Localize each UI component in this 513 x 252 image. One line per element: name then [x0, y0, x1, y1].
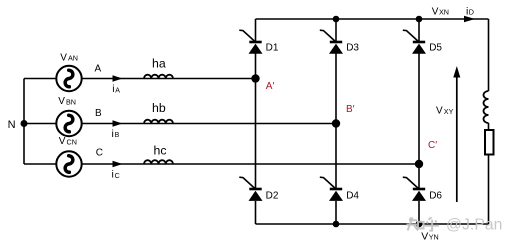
wire column D5 upper [418, 19, 420, 41]
svg-text:D1: D1 [266, 43, 279, 54]
label ID [466, 5, 474, 17]
label VAN [60, 52, 78, 63]
label B' [346, 104, 355, 115]
svg-text:hc: hc [154, 144, 167, 158]
inductor ha [144, 75, 173, 79]
node top D3 junction [333, 16, 340, 23]
svg-text:XN: XN [439, 8, 449, 17]
label hb [152, 101, 166, 115]
svg-text:N: N [8, 119, 16, 131]
label iB [112, 128, 120, 140]
AC source VCN [56, 151, 81, 176]
node bottom D4 junction [333, 221, 340, 228]
arrow current iA [113, 75, 123, 81]
label ha [152, 57, 166, 71]
watermark zhihu glyphs [407, 217, 440, 230]
svg-text:D5: D5 [429, 43, 442, 54]
svg-text:V: V [59, 136, 66, 147]
wire column D3 lower [335, 201, 337, 224]
svg-text:V: V [60, 52, 67, 63]
wire row C left [24, 163, 56, 165]
wire left neutral bus [23, 79, 25, 165]
label B [95, 108, 102, 119]
label D3 [346, 43, 359, 54]
label C' [428, 140, 437, 151]
label A [95, 64, 102, 75]
svg-text:D: D [469, 8, 474, 17]
wire column D1 upper [255, 19, 257, 41]
svg-text:YN: YN [429, 233, 439, 242]
label iC [112, 169, 120, 181]
watermark @J.Pan [446, 217, 502, 234]
svg-text:A: A [115, 88, 120, 95]
svg-text:BN: BN [66, 98, 76, 107]
label VXN [432, 6, 449, 17]
svg-text:D3: D3 [346, 43, 359, 54]
wire row A left [24, 78, 56, 80]
inductor hc [144, 160, 173, 164]
node A' [251, 74, 259, 82]
wire column D3 upper [335, 19, 337, 41]
label N [8, 119, 16, 131]
svg-text:B: B [95, 108, 102, 119]
thyristor D3 [320, 30, 343, 54]
svg-text:V: V [436, 106, 443, 117]
label VXY [436, 106, 454, 117]
wire top bus [256, 18, 489, 20]
label iA [112, 83, 120, 95]
svg-text:CN: CN [67, 138, 77, 147]
svg-text:XY: XY [444, 107, 454, 116]
node bottom D6 junction [416, 221, 423, 228]
svg-text:V: V [432, 6, 439, 17]
resistor load [485, 130, 494, 155]
wire column D1 lower [255, 201, 257, 224]
svg-text:D2: D2 [266, 190, 279, 201]
label VYN [421, 230, 438, 242]
thyristor D6 [403, 177, 426, 201]
svg-text:A′: A′ [266, 81, 275, 92]
svg-text:hb: hb [152, 101, 166, 115]
label hc [154, 144, 167, 158]
label C [96, 148, 103, 159]
arrow voltage VXY [453, 66, 460, 202]
wire column D1 middle [255, 53, 257, 188]
label D4 [346, 190, 359, 201]
wire column D5 middle [418, 53, 420, 188]
label VBN [58, 96, 76, 107]
wire bottom bus [256, 223, 489, 225]
inductor load [484, 91, 489, 123]
wire row B middle [82, 123, 336, 125]
svg-text:V: V [421, 230, 428, 242]
arrow current iD [464, 16, 475, 22]
inductor hb [144, 120, 173, 124]
arrow current iB [113, 120, 123, 126]
svg-text:i: i [112, 169, 114, 181]
wire row A middle [82, 78, 256, 80]
label D1 [266, 43, 279, 54]
label D6 [429, 190, 442, 201]
thyristor D4 [320, 177, 343, 201]
thyristor D5 [403, 30, 426, 54]
wire column D5 lower [418, 201, 420, 224]
svg-text:AN: AN [68, 54, 78, 63]
wire row C middle [82, 163, 419, 165]
thyristor D2 [239, 177, 262, 201]
node C' [415, 160, 423, 168]
node N [21, 120, 28, 127]
svg-text:@J.Pan: @J.Pan [446, 217, 502, 234]
AC source VBN [56, 111, 81, 136]
svg-text:i: i [112, 128, 114, 140]
svg-text:D6: D6 [429, 190, 442, 201]
wire load right lower [488, 155, 490, 225]
wire column D3 middle [335, 53, 337, 188]
svg-text:B′: B′ [346, 104, 355, 115]
svg-text:C: C [115, 173, 120, 180]
svg-text:C′: C′ [428, 140, 437, 151]
node top D5 junction [416, 16, 423, 23]
svg-text:V: V [58, 96, 65, 107]
thyristor D1 [239, 30, 262, 54]
arrow current iC [113, 161, 123, 167]
svg-text:C: C [96, 148, 103, 159]
label A' [266, 81, 275, 92]
svg-text:ha: ha [152, 57, 166, 71]
svg-text:i: i [112, 83, 114, 95]
label D2 [266, 190, 279, 201]
AC source VAN [56, 66, 81, 91]
wire load right upper [488, 19, 490, 91]
label D5 [429, 43, 442, 54]
wire load right between L and R [488, 123, 490, 130]
svg-text:A: A [95, 64, 102, 75]
wire row B left [24, 123, 56, 125]
node B' [332, 119, 340, 127]
label VCN [59, 136, 77, 147]
svg-text:B: B [115, 132, 120, 139]
svg-text:D4: D4 [346, 190, 359, 201]
